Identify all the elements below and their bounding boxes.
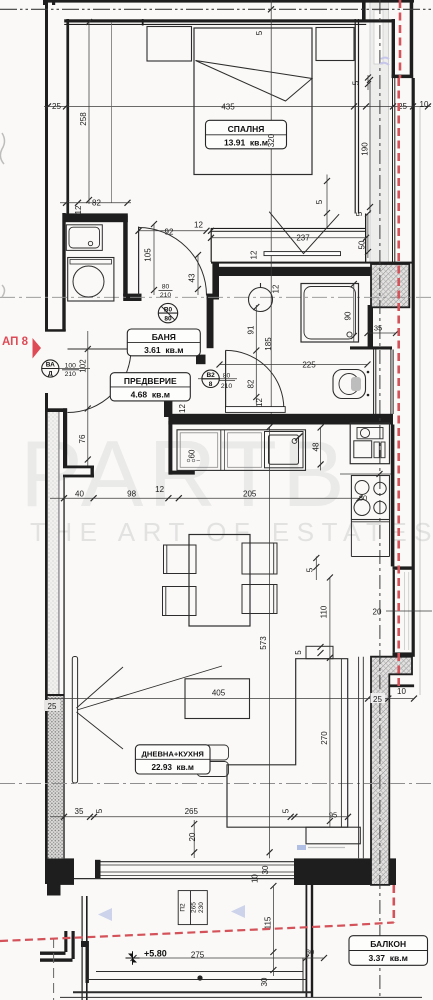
svg-text:40: 40 bbox=[75, 490, 84, 499]
svg-text:12: 12 bbox=[249, 250, 258, 259]
svg-text:3.37 кв.м: 3.37 кв.м bbox=[368, 953, 407, 963]
svg-text:22.93 кв.м: 22.93 кв.м bbox=[151, 763, 194, 772]
svg-text:91: 91 bbox=[246, 325, 255, 334]
svg-text:ВА: ВА bbox=[46, 362, 55, 369]
svg-text:5: 5 bbox=[255, 30, 264, 35]
svg-text:115: 115 bbox=[263, 916, 272, 929]
svg-text:12: 12 bbox=[255, 398, 264, 407]
svg-text:В0: В0 bbox=[164, 307, 173, 314]
svg-text:Д: Д bbox=[48, 371, 53, 378]
svg-text:30: 30 bbox=[306, 948, 314, 957]
svg-text:13.91 кв.м: 13.91 кв.м bbox=[224, 138, 268, 148]
svg-text:20: 20 bbox=[373, 608, 382, 617]
svg-text:102: 102 bbox=[79, 359, 88, 373]
svg-text:30: 30 bbox=[260, 977, 269, 986]
svg-text:210: 210 bbox=[160, 292, 172, 299]
svg-text:35: 35 bbox=[75, 807, 84, 816]
svg-text:82: 82 bbox=[246, 379, 255, 388]
svg-text:225: 225 bbox=[302, 361, 316, 370]
svg-text:110: 110 bbox=[319, 605, 328, 618]
svg-text:100: 100 bbox=[65, 363, 77, 370]
svg-text:5: 5 bbox=[95, 808, 104, 813]
svg-text:573: 573 bbox=[259, 636, 268, 650]
svg-text:265: 265 bbox=[185, 807, 199, 816]
svg-text:25: 25 bbox=[373, 695, 382, 704]
svg-text:405: 405 bbox=[212, 689, 226, 698]
svg-text:80: 80 bbox=[359, 494, 367, 503]
svg-text:20: 20 bbox=[188, 832, 197, 841]
svg-text:12: 12 bbox=[178, 404, 187, 413]
svg-text:БАЛКОН: БАЛКОН bbox=[370, 939, 406, 949]
svg-text:105: 105 bbox=[144, 248, 153, 262]
svg-text:5: 5 bbox=[282, 808, 291, 813]
svg-text:12: 12 bbox=[155, 485, 164, 494]
svg-text:80: 80 bbox=[162, 284, 170, 291]
svg-text:82: 82 bbox=[92, 199, 101, 208]
svg-text:10: 10 bbox=[397, 687, 406, 696]
svg-text:270: 270 bbox=[320, 731, 329, 745]
svg-text:50: 50 bbox=[358, 240, 367, 249]
svg-text:АП 8: АП 8 bbox=[2, 336, 29, 348]
svg-text:76: 76 bbox=[78, 434, 87, 443]
svg-text:БАНЯ: БАНЯ bbox=[152, 332, 176, 342]
svg-text:5: 5 bbox=[355, 211, 364, 216]
svg-text:230: 230 bbox=[198, 902, 205, 913]
svg-text:190: 190 bbox=[361, 142, 370, 156]
svg-text:+5.80: +5.80 bbox=[144, 949, 167, 959]
svg-text:210: 210 bbox=[65, 371, 77, 378]
svg-text:210: 210 bbox=[221, 383, 233, 390]
svg-text:10: 10 bbox=[420, 100, 429, 109]
svg-text:3.61 кв.м: 3.61 кв.м bbox=[144, 345, 183, 355]
svg-text:5: 5 bbox=[315, 199, 324, 204]
svg-text:5: 5 bbox=[306, 567, 315, 572]
svg-text:205: 205 bbox=[243, 490, 257, 499]
svg-text:10: 10 bbox=[251, 874, 260, 883]
svg-text:П2: П2 bbox=[180, 903, 187, 912]
svg-text:237: 237 bbox=[296, 234, 310, 243]
svg-text:12: 12 bbox=[194, 221, 203, 230]
svg-text:320: 320 bbox=[267, 133, 276, 147]
svg-text:8: 8 bbox=[209, 381, 213, 388]
svg-text:80: 80 bbox=[164, 316, 172, 323]
svg-text:В2: В2 bbox=[206, 372, 215, 379]
svg-text:25: 25 bbox=[52, 102, 61, 111]
svg-text:30: 30 bbox=[261, 865, 270, 874]
svg-text:80: 80 bbox=[223, 373, 231, 380]
svg-text:35: 35 bbox=[374, 324, 382, 333]
svg-text:48: 48 bbox=[312, 442, 321, 451]
svg-text:СПАЛНЯ: СПАЛНЯ bbox=[228, 124, 265, 134]
svg-text:98: 98 bbox=[127, 490, 136, 499]
svg-text:258: 258 bbox=[79, 112, 88, 126]
svg-text:5: 5 bbox=[352, 80, 361, 85]
svg-text:5: 5 bbox=[294, 650, 303, 655]
svg-text:12: 12 bbox=[74, 205, 83, 214]
svg-text:43: 43 bbox=[188, 273, 197, 282]
svg-text:435: 435 bbox=[221, 103, 235, 112]
svg-text:ДНЕВНА+КУХНЯ: ДНЕВНА+КУХНЯ bbox=[141, 749, 203, 758]
svg-text:4.68 кв.м: 4.68 кв.м bbox=[131, 390, 170, 400]
svg-text:275: 275 bbox=[191, 951, 205, 960]
svg-text:60: 60 bbox=[188, 449, 197, 458]
svg-text:25: 25 bbox=[48, 702, 57, 711]
svg-text:12: 12 bbox=[272, 284, 281, 293]
svg-text:90: 90 bbox=[344, 311, 353, 320]
svg-text:ПРЕДВЕРИЕ: ПРЕДВЕРИЕ bbox=[124, 376, 177, 386]
svg-text:95: 95 bbox=[329, 811, 337, 820]
svg-text:185: 185 bbox=[264, 337, 273, 351]
svg-text:265: 265 bbox=[191, 902, 198, 913]
